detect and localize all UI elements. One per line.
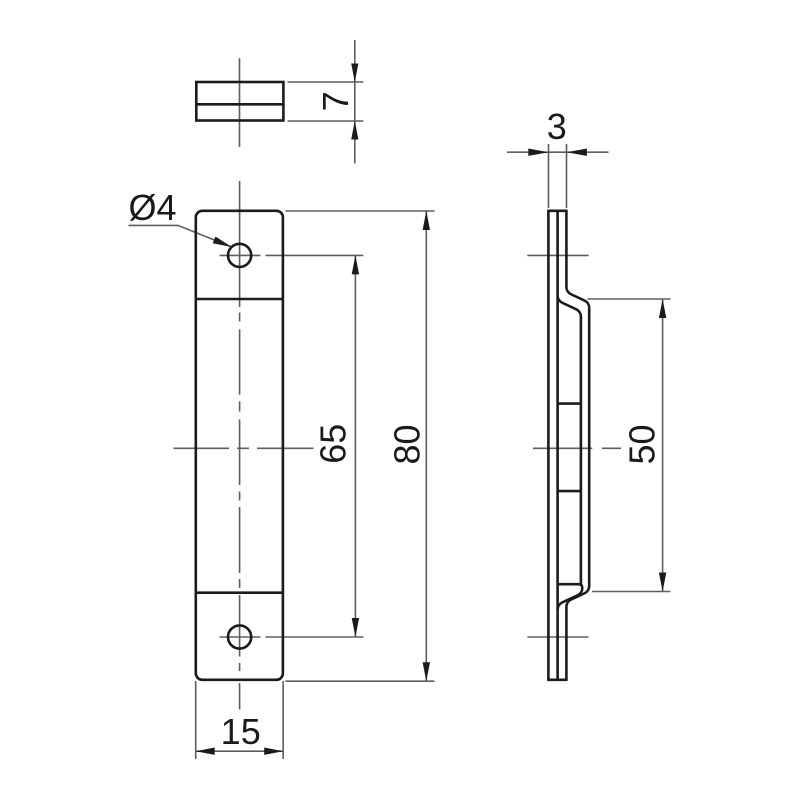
side view top bend inner	[558, 296, 581, 317]
svg-text:Ø4: Ø4	[128, 187, 176, 228]
extension lines dim 50	[588, 299, 671, 592]
extension lines dim 80	[286, 211, 435, 681]
centerline side view top hole	[527, 254, 588, 256]
side view top cap	[547, 210, 567, 213]
arrow dim 7 bottom	[351, 121, 358, 140]
arrow dim 3 right	[567, 149, 587, 156]
extension lines dim 15	[196, 681, 284, 759]
arrow dim 15 right	[264, 748, 283, 755]
side view offset inner face	[580, 317, 583, 585]
centerline top hole / extension 65 top	[220, 254, 364, 256]
svg-text:7: 7	[315, 91, 356, 111]
arrow dim 50 bottom	[659, 573, 666, 592]
side view bottom bend inner	[558, 588, 583, 610]
svg-text:80: 80	[386, 424, 427, 464]
centerline side view middle	[533, 447, 621, 449]
extension lines dim 3	[549, 144, 567, 208]
side view offset outer face	[588, 308, 591, 586]
top hole	[228, 244, 251, 267]
side view tab bottom edge	[558, 490, 581, 493]
side view front face bottom	[565, 607, 568, 680]
svg-text:3: 3	[547, 106, 567, 147]
leader line O4	[129, 225, 232, 247]
side view back face right	[556, 211, 559, 680]
front view outline	[196, 211, 283, 680]
arrow dim 15 left	[196, 748, 215, 755]
side view tab top edge	[558, 402, 581, 405]
svg-text:50: 50	[622, 424, 663, 464]
side view front face top	[565, 211, 568, 288]
centerline side view bottom hole	[527, 636, 588, 638]
arrow dim 7 top	[351, 64, 358, 83]
top view outline	[196, 82, 283, 121]
arrow dim 50 top	[659, 299, 666, 318]
centerline bottom hole / extension 65 bottom	[220, 636, 364, 638]
side view shelf cut edge	[558, 584, 582, 588]
centerline front view vertical (dash-dot)	[239, 181, 241, 710]
arrow dim 80 top	[423, 211, 430, 230]
dimension line 65	[354, 255, 356, 637]
dimension line 80	[425, 211, 427, 681]
arrow dim 80 bottom	[423, 662, 430, 681]
svg-text:15: 15	[221, 711, 261, 752]
arrow dim 65 top	[352, 255, 359, 274]
front view bend line top	[196, 298, 283, 301]
top view inner line	[196, 103, 283, 106]
centerline top view	[239, 58, 241, 147]
bottom hole	[228, 625, 251, 648]
arrow dim 3 left	[528, 149, 548, 156]
side view bottom bend outer	[566, 586, 589, 607]
arrow leader O4	[213, 237, 232, 248]
arrow dim 65 bottom	[352, 618, 359, 637]
dimension line 7	[354, 40, 356, 164]
svg-text:65: 65	[312, 424, 353, 464]
side view back face left	[547, 211, 550, 680]
front view bend line bottom	[196, 591, 283, 594]
dimension line 15	[196, 750, 284, 752]
side view top bend outer	[566, 287, 589, 308]
dimension line 50	[662, 299, 664, 592]
centerline front view horizontal middle	[174, 447, 314, 449]
dimension line 3	[507, 151, 609, 153]
extension lines dim 7	[288, 82, 364, 121]
side view bottom cap	[547, 678, 567, 681]
